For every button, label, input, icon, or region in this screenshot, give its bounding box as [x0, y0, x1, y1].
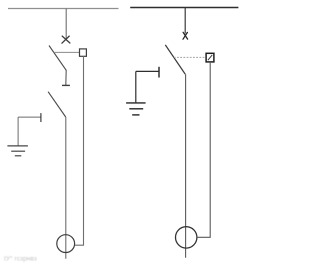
earthing switch right: fixed contact arm	[136, 70, 159, 72]
wire: earthing switch right to ground	[135, 71, 137, 102]
wire: tap from blade to auxiliary box left	[54, 51, 80, 53]
disconnector blade Q3 (open)	[165, 45, 185, 74]
wire: left main feeder down to CT	[65, 117, 67, 259]
slash inside auxiliary box right	[208, 55, 212, 60]
disconnector blade Q2 (open)	[48, 92, 66, 117]
wire: right main feeder down to CT	[185, 74, 187, 258]
ground left	[7, 146, 28, 156]
wire: auxiliary box left drop	[75, 56, 84, 245]
fuse X contact right	[183, 32, 188, 39]
earthing switch left: fixed contact arm	[18, 116, 41, 118]
CT circle left	[57, 235, 75, 253]
wire: earthing switch left to ground	[17, 117, 19, 146]
dashed tap from blade to auxiliary box right	[174, 56, 206, 58]
watermark text bottom-left	[4, 255, 37, 263]
wire: right feeder drop from busbar	[184, 8, 186, 34]
auxiliary box right	[206, 53, 214, 62]
ground right	[126, 103, 146, 115]
busbar right	[130, 7, 238, 9]
disconnector blade Q1 (open)	[49, 46, 66, 71]
CT circle right	[176, 227, 197, 248]
auxiliary box left	[80, 49, 87, 56]
wire: below blade Q1	[65, 70, 67, 85]
wire: auxiliary box right drop	[197, 62, 210, 237]
wire: left feeder drop from busbar	[65, 9, 67, 40]
busbar left	[8, 8, 119, 10]
svg-text:tУ° гсзрнвз: tУ° гсзрнвз	[4, 255, 37, 263]
earthing switch left: contact tick	[40, 113, 42, 122]
contact bar of switch Q2	[62, 84, 70, 86]
earthing switch right: contact tick	[158, 67, 160, 78]
fuse X contact left	[62, 36, 70, 43]
